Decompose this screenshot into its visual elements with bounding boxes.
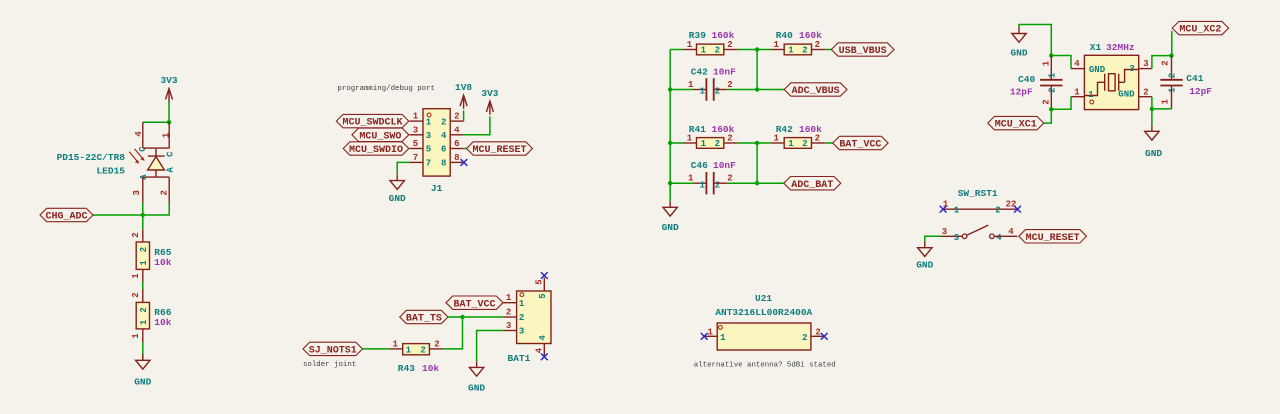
svg-text:GND: GND bbox=[1010, 48, 1027, 59]
svg-text:LED15: LED15 bbox=[96, 166, 125, 177]
svg-text:ADC_VBUS: ADC_VBUS bbox=[792, 86, 840, 97]
svg-text:MCU_SWDCLK: MCU_SWDCLK bbox=[343, 118, 403, 129]
svg-text:GND: GND bbox=[916, 260, 933, 271]
svg-text:3: 3 bbox=[1129, 64, 1134, 74]
svg-text:2: 2 bbox=[815, 134, 820, 144]
wire node to R65 bbox=[142, 215, 144, 230]
svg-text:2: 2 bbox=[131, 292, 141, 297]
svg-text:4: 4 bbox=[441, 131, 447, 141]
LED LED15 light arrows bbox=[129, 149, 145, 164]
pin 1 of R41 bbox=[683, 142, 697, 144]
svg-text:1: 1 bbox=[1168, 87, 1178, 93]
no-connect BAT1 pin4 bbox=[541, 353, 548, 360]
global label CHG_ADC bbox=[40, 208, 93, 222]
svg-text:1: 1 bbox=[707, 327, 713, 337]
svg-text:3: 3 bbox=[1143, 59, 1148, 69]
svg-text:1: 1 bbox=[519, 299, 525, 309]
svg-text:2: 2 bbox=[160, 190, 170, 195]
svg-text:3: 3 bbox=[413, 125, 418, 135]
capacitor C40 bbox=[1040, 72, 1062, 93]
wire J1 pin7 to GND bbox=[397, 162, 409, 174]
svg-text:1: 1 bbox=[773, 134, 779, 144]
svg-text:1: 1 bbox=[687, 134, 693, 144]
wire J1 pin2 to 1V8 bbox=[463, 111, 465, 122]
svg-text:10k: 10k bbox=[422, 363, 439, 374]
pin 1 of BAT1 bbox=[503, 302, 516, 304]
svg-text:2: 2 bbox=[1041, 99, 1051, 104]
svg-text:2: 2 bbox=[727, 173, 732, 183]
junction ADC_VBUS node bbox=[755, 87, 759, 91]
svg-text:2: 2 bbox=[802, 139, 807, 149]
global label ADC_BAT bbox=[784, 177, 841, 191]
pin 2 of X1 bbox=[1139, 96, 1152, 98]
svg-text:1: 1 bbox=[699, 87, 705, 97]
wire R40 to USB_VBUS bbox=[825, 49, 831, 51]
svg-text:R41: R41 bbox=[689, 124, 706, 135]
pin 4 of X1 bbox=[1071, 68, 1084, 70]
svg-text:1: 1 bbox=[1074, 87, 1080, 97]
svg-text:4: 4 bbox=[134, 131, 144, 137]
wire C41 to pin2 node bbox=[1152, 108, 1172, 110]
svg-text:1: 1 bbox=[701, 46, 707, 56]
svg-text:6: 6 bbox=[454, 139, 459, 149]
svg-text:3: 3 bbox=[426, 131, 431, 141]
antenna U21 body bbox=[717, 323, 811, 350]
global label BAT_TS bbox=[400, 310, 448, 324]
pin 4 of BAT1 bbox=[543, 344, 545, 356]
svg-text:U21: U21 bbox=[755, 293, 772, 304]
no-connect U21 pin1 bbox=[701, 333, 708, 340]
no-connect BAT1 pin5 bbox=[541, 272, 548, 279]
svg-text:1: 1 bbox=[943, 200, 949, 210]
svg-text:1: 1 bbox=[954, 205, 960, 215]
svg-text:2: 2 bbox=[1048, 87, 1058, 92]
wire BAT_TS to BAT1 pin2 bbox=[448, 316, 503, 318]
svg-text:10nF: 10nF bbox=[713, 160, 736, 171]
pin 2 of R43 bbox=[429, 348, 443, 350]
junction ADC_BAT node bbox=[755, 181, 759, 185]
svg-text:2: 2 bbox=[815, 327, 820, 337]
svg-text:2: 2 bbox=[420, 345, 425, 355]
wire R65 to R66 bbox=[142, 282, 144, 289]
svg-text:2: 2 bbox=[802, 333, 807, 343]
svg-text:R40: R40 bbox=[776, 30, 793, 41]
svg-text:1: 1 bbox=[506, 293, 512, 303]
pin 1 of R39 bbox=[683, 49, 697, 51]
wire bus to R41 bbox=[670, 142, 683, 144]
svg-text:GND: GND bbox=[662, 222, 679, 233]
wire node to X1 pin4 bbox=[1051, 56, 1071, 69]
pin 2 of U21 bbox=[811, 335, 824, 337]
global label MCU_RESET bbox=[467, 142, 533, 156]
svg-text:1: 1 bbox=[687, 40, 693, 50]
junction bus row3 bbox=[668, 141, 672, 145]
svg-text:R43: R43 bbox=[398, 363, 415, 374]
svg-text:2: 2 bbox=[715, 87, 720, 97]
svg-text:1: 1 bbox=[139, 260, 149, 266]
pin 1 of R43 bbox=[389, 348, 403, 350]
wire bus to R39 bbox=[670, 49, 683, 51]
svg-text:X1: X1 bbox=[1090, 42, 1102, 53]
pin 5 of BAT1 bbox=[543, 278, 545, 292]
LED LED15 body bbox=[143, 148, 169, 177]
svg-text:1: 1 bbox=[688, 173, 694, 183]
pin 5 of J1 bbox=[410, 148, 424, 150]
ground crystal right bbox=[1145, 125, 1163, 159]
svg-text:GND: GND bbox=[1145, 148, 1162, 159]
svg-text:10nF: 10nF bbox=[713, 66, 736, 77]
svg-text:C: C bbox=[166, 151, 176, 157]
svg-text:GND: GND bbox=[389, 193, 406, 204]
pin 3 of X1 bbox=[1139, 68, 1152, 70]
pin 2 of R42 bbox=[812, 142, 826, 144]
svg-text:1: 1 bbox=[773, 40, 779, 50]
svg-text:ADC_BAT: ADC_BAT bbox=[791, 180, 833, 191]
svg-text:4: 4 bbox=[535, 347, 545, 353]
svg-text:2: 2 bbox=[441, 117, 446, 127]
svg-text:1: 1 bbox=[139, 319, 149, 325]
connector J1 body bbox=[423, 109, 450, 176]
svg-text:5: 5 bbox=[538, 293, 548, 298]
pin 1 of R42 bbox=[771, 142, 785, 144]
wire LED pin2 to rail bbox=[143, 203, 169, 216]
svg-text:BAT_VCC: BAT_VCC bbox=[839, 140, 881, 151]
svg-text:2: 2 bbox=[1168, 73, 1178, 78]
pin 3 of LED15 bbox=[142, 177, 144, 202]
svg-text:8: 8 bbox=[454, 153, 459, 163]
pin 2 of BAT1 bbox=[503, 316, 516, 318]
svg-text:1: 1 bbox=[688, 80, 694, 90]
pin 6 of J1 bbox=[450, 148, 464, 150]
svg-text:2: 2 bbox=[1143, 87, 1148, 97]
wire bus to C46 bbox=[670, 182, 693, 184]
svg-text:2: 2 bbox=[454, 112, 459, 122]
pin 1 of C42 bbox=[693, 89, 707, 91]
svg-text:4: 4 bbox=[454, 125, 460, 135]
junction divider BAT bbox=[755, 141, 759, 145]
svg-text:1: 1 bbox=[699, 180, 705, 190]
junction C40 top bbox=[1049, 53, 1053, 57]
svg-text:1: 1 bbox=[1041, 60, 1051, 66]
svg-text:7: 7 bbox=[426, 159, 431, 169]
pin 3 of J1 bbox=[410, 134, 424, 136]
ground SW_RST1 bbox=[916, 242, 933, 271]
svg-text:2: 2 bbox=[506, 307, 511, 317]
svg-text:2: 2 bbox=[815, 40, 820, 50]
BAT1 pin-1 marker bbox=[520, 293, 524, 297]
wire X1 pin2 down bbox=[1151, 97, 1153, 109]
pin 3 of SW_RST1 bbox=[941, 235, 963, 237]
svg-text:GND: GND bbox=[1118, 89, 1135, 99]
X1 pin-1 marker bbox=[1090, 100, 1094, 104]
svg-text:1: 1 bbox=[131, 273, 141, 279]
global label USB_VBUS bbox=[831, 43, 894, 57]
resistor R42 bbox=[784, 138, 811, 150]
pin 2 of R40 bbox=[812, 49, 826, 51]
svg-text:BAT1: BAT1 bbox=[508, 353, 531, 364]
svg-text:2: 2 bbox=[715, 46, 720, 56]
svg-text:USB_VBUS: USB_VBUS bbox=[839, 46, 887, 57]
switch SW_RST1 contacts and lever bbox=[962, 225, 994, 239]
pin 1 of C41 bbox=[1171, 86, 1173, 109]
svg-text:A: A bbox=[139, 174, 149, 180]
power flag 1V8 bbox=[455, 82, 472, 109]
wire MCU_XC1 to node bbox=[1044, 109, 1052, 123]
U21 pin-1 marker bbox=[719, 326, 723, 330]
no-connect U21 pin2 bbox=[821, 333, 828, 340]
junction C41 bottom bbox=[1150, 107, 1154, 111]
wire SJ_NOTS1 to R43 bbox=[363, 348, 390, 350]
svg-text:A: A bbox=[166, 167, 176, 173]
svg-text:1: 1 bbox=[413, 112, 419, 122]
junction CHG_ADC node bbox=[141, 213, 145, 217]
pin 1 of J1 bbox=[410, 120, 424, 122]
svg-text:1: 1 bbox=[406, 345, 412, 355]
crystal X1 body bbox=[1084, 55, 1138, 109]
wire LED top rail bbox=[143, 121, 169, 123]
svg-text:10k: 10k bbox=[154, 317, 171, 328]
svg-text:2: 2 bbox=[1160, 60, 1170, 65]
svg-text:3: 3 bbox=[519, 327, 524, 337]
svg-text:2: 2 bbox=[995, 205, 1000, 215]
svg-text:MCU_SWDIO: MCU_SWDIO bbox=[349, 145, 403, 156]
svg-text:GND: GND bbox=[468, 383, 485, 394]
wire node to X1 pin1 bbox=[1051, 97, 1071, 110]
wire R42 to BAT_VCC bbox=[825, 142, 833, 144]
svg-text:32MHz: 32MHz bbox=[1106, 42, 1135, 53]
svg-text:ANT3216LL00R2400A: ANT3216LL00R2400A bbox=[715, 307, 812, 318]
svg-text:GND: GND bbox=[1089, 65, 1106, 75]
svg-text:5: 5 bbox=[535, 279, 545, 284]
svg-text:3: 3 bbox=[954, 233, 959, 243]
resistor R41 bbox=[697, 138, 724, 150]
global label MCU_SWO bbox=[352, 128, 409, 142]
svg-text:1: 1 bbox=[720, 333, 726, 343]
pin 1 of C40 bbox=[1050, 56, 1052, 80]
wire MCU_XC2 to node bbox=[1171, 31, 1173, 56]
svg-text:C46: C46 bbox=[691, 160, 708, 171]
power flag 3V3 bbox=[160, 75, 177, 102]
svg-text:MCU_RESET: MCU_RESET bbox=[472, 145, 526, 156]
svg-text:MCU_RESET: MCU_RESET bbox=[1026, 233, 1080, 244]
svg-text:SW_RST1: SW_RST1 bbox=[958, 188, 998, 199]
wire mid to ADC_BAT bbox=[757, 182, 784, 184]
wire GND to crystal node bbox=[1019, 25, 1051, 56]
pin 2 of R66 bbox=[142, 289, 144, 302]
ground BAT1 bbox=[468, 361, 485, 393]
pin 2 of R41 bbox=[724, 142, 738, 144]
pin 8 of J1 bbox=[450, 161, 464, 163]
svg-text:C41: C41 bbox=[1186, 73, 1203, 84]
svg-text:5: 5 bbox=[413, 139, 418, 149]
J1 pin-1 marker bbox=[427, 113, 431, 117]
wire C42 to mid bbox=[727, 89, 757, 91]
junction bus row2 bbox=[668, 87, 672, 91]
wire BAT1 pin3 to GND bbox=[477, 331, 504, 362]
pin 2 of R65 bbox=[142, 230, 144, 242]
junction LED top bbox=[167, 120, 171, 124]
svg-text:1: 1 bbox=[788, 139, 794, 149]
pin 2 of C46 bbox=[714, 182, 728, 184]
svg-text:3V3: 3V3 bbox=[481, 88, 498, 99]
no-connect J1 pin8 bbox=[461, 159, 468, 166]
ground LED divider bbox=[134, 354, 151, 388]
svg-text:3: 3 bbox=[132, 190, 142, 195]
wire left bus vertical bbox=[669, 50, 671, 202]
global label BAT_VCC bbox=[446, 296, 503, 310]
wire divider mid vertical BAT bbox=[756, 143, 758, 183]
svg-text:solder joint: solder joint bbox=[303, 361, 356, 369]
svg-text:J1: J1 bbox=[431, 183, 443, 194]
svg-text:2: 2 bbox=[802, 46, 807, 56]
svg-text:22: 22 bbox=[1006, 200, 1017, 210]
pin 2 of C40 bbox=[1050, 86, 1052, 110]
wire bus to C42 bbox=[670, 89, 693, 91]
pin 2 of LED15 bbox=[168, 177, 170, 202]
svg-text:1: 1 bbox=[788, 46, 794, 56]
ground J1 bbox=[389, 174, 406, 204]
pin 7 of J1 bbox=[410, 161, 424, 163]
wire divider mid vertical VBUS bbox=[756, 50, 758, 90]
svg-text:4: 4 bbox=[538, 335, 548, 341]
pin 4 of LED15 bbox=[142, 122, 144, 148]
wire mid to ADC_VBUS bbox=[757, 89, 784, 91]
svg-text:BAT_TS: BAT_TS bbox=[406, 314, 442, 325]
wire CHG_ADC rail bbox=[93, 214, 143, 216]
global label BAT_VCC (divider) bbox=[833, 136, 888, 150]
pin 1 of R66 bbox=[142, 329, 144, 343]
svg-text:1: 1 bbox=[1048, 72, 1058, 78]
ground crystal left bbox=[1010, 27, 1027, 58]
svg-text:1: 1 bbox=[161, 132, 171, 138]
wire C46 to mid bbox=[727, 182, 757, 184]
svg-text:5: 5 bbox=[426, 145, 431, 155]
ground divider bbox=[662, 201, 679, 233]
svg-text:R39: R39 bbox=[689, 30, 706, 41]
pin 2 of J1 bbox=[450, 120, 464, 122]
svg-text:2: 2 bbox=[139, 247, 149, 252]
resistor R66 bbox=[136, 302, 149, 329]
wire R39 to R40 bbox=[737, 49, 770, 51]
wire node to GND bbox=[1151, 109, 1153, 125]
svg-text:BAT_VCC: BAT_VCC bbox=[453, 299, 495, 310]
svg-text:2: 2 bbox=[131, 232, 141, 237]
resistor R43 bbox=[403, 344, 430, 356]
wire J1 pin4 to 3V3 bbox=[464, 116, 490, 134]
pin 2 of R39 bbox=[724, 49, 738, 51]
junction BAT_TS node bbox=[460, 315, 464, 319]
switch SW_RST1 fixed contact pins 1-2 bbox=[943, 208, 1017, 210]
resistor R39 bbox=[697, 44, 724, 56]
global label MCU_SWDCLK bbox=[336, 114, 409, 128]
svg-text:MCU_XC1: MCU_XC1 bbox=[995, 120, 1037, 131]
wire LED pin3 down bbox=[142, 203, 144, 216]
svg-text:12pF: 12pF bbox=[1189, 86, 1212, 97]
wire J1 pin6 to MCU_RESET bbox=[464, 148, 467, 150]
wire R43 to BAT_TS node bbox=[443, 317, 463, 349]
svg-text:MCU_XC2: MCU_XC2 bbox=[1179, 25, 1221, 36]
global label SJ_NOTS1 bbox=[303, 342, 363, 356]
pin 1 of U21 bbox=[704, 335, 717, 337]
no-connect SW_RST1 pin2 bbox=[1014, 206, 1021, 213]
capacitor C46 bbox=[699, 172, 720, 194]
svg-text:2: 2 bbox=[727, 134, 732, 144]
connector BAT1 body bbox=[517, 291, 551, 344]
svg-text:4: 4 bbox=[1074, 59, 1080, 69]
svg-text:7: 7 bbox=[413, 153, 418, 163]
svg-text:2: 2 bbox=[139, 307, 149, 312]
svg-text:PD15-22C/TR8: PD15-22C/TR8 bbox=[57, 152, 126, 163]
global label MCU_RESET (SW_RST1) bbox=[1019, 230, 1087, 244]
wire X1 pin3 to node bbox=[1152, 56, 1172, 69]
pin 1 of X1 bbox=[1071, 96, 1084, 98]
svg-text:8: 8 bbox=[441, 159, 446, 169]
resistor R40 bbox=[784, 44, 811, 56]
svg-text:2: 2 bbox=[715, 139, 720, 149]
svg-text:3: 3 bbox=[506, 321, 511, 331]
pin 4 of J1 bbox=[450, 134, 464, 136]
svg-text:1: 1 bbox=[1160, 99, 1170, 105]
pin 1 of R40 bbox=[771, 49, 785, 51]
wire 3V3 to LED15 bbox=[168, 102, 170, 123]
svg-text:1: 1 bbox=[392, 339, 398, 349]
junction bus row4 bbox=[668, 181, 672, 185]
wire R66 to GND bbox=[142, 342, 144, 360]
svg-text:programming/debug port: programming/debug port bbox=[337, 85, 435, 93]
svg-text:R42: R42 bbox=[776, 124, 793, 135]
capacitor C42 bbox=[699, 78, 720, 100]
svg-text:C40: C40 bbox=[1018, 74, 1035, 85]
svg-text:2: 2 bbox=[727, 80, 732, 90]
junction divider VBUS bbox=[755, 47, 759, 51]
global label MCU_XC1 bbox=[988, 116, 1044, 130]
svg-text:GND: GND bbox=[134, 377, 151, 388]
global label MCU_XC2 bbox=[1172, 21, 1228, 35]
pin 3 of BAT1 bbox=[503, 330, 516, 332]
svg-text:6: 6 bbox=[441, 145, 446, 155]
svg-text:1: 1 bbox=[701, 139, 707, 149]
power flag 3V3 (J1) bbox=[481, 88, 498, 115]
global label MCU_SWDIO bbox=[343, 142, 409, 156]
svg-text:C42: C42 bbox=[691, 66, 708, 77]
svg-text:12pF: 12pF bbox=[1010, 87, 1033, 98]
svg-text:SJ_NOTS1: SJ_NOTS1 bbox=[309, 346, 357, 357]
svg-text:10k: 10k bbox=[154, 257, 171, 268]
pin 2 of C42 bbox=[714, 89, 728, 91]
capacitor C41 bbox=[1160, 73, 1182, 93]
svg-text:1: 1 bbox=[1088, 90, 1094, 100]
svg-text:1: 1 bbox=[131, 333, 141, 339]
junction C41 top bbox=[1169, 53, 1173, 57]
svg-text:CHG_ADC: CHG_ADC bbox=[45, 212, 87, 223]
pin 1 of C46 bbox=[693, 182, 707, 184]
svg-text:MCU_SWO: MCU_SWO bbox=[359, 131, 401, 142]
resistor R65 bbox=[136, 242, 149, 269]
wire GND to SW_RST1 pin3 bbox=[925, 236, 941, 242]
pin 1 of LED15 bbox=[168, 122, 170, 148]
svg-text:1V8: 1V8 bbox=[455, 82, 472, 93]
svg-text:4: 4 bbox=[996, 233, 1002, 243]
pin 4 of SW_RST1 bbox=[994, 235, 1017, 237]
svg-text:4: 4 bbox=[1008, 227, 1014, 237]
wire R41 to R42 bbox=[737, 142, 770, 144]
svg-text:alternative antenna? 5dBi stat: alternative antenna? 5dBi stated bbox=[694, 362, 836, 370]
global label ADC_VBUS bbox=[784, 83, 847, 97]
svg-text:2: 2 bbox=[519, 313, 524, 323]
pin 2 of C41 bbox=[1171, 56, 1173, 80]
svg-text:3V3: 3V3 bbox=[160, 75, 177, 86]
pin 1 of R65 bbox=[142, 269, 144, 282]
